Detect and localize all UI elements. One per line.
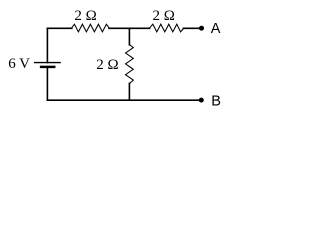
svg-text:2 Ω: 2 Ω: [96, 57, 118, 73]
svg-text:2 Ω: 2 Ω: [74, 8, 96, 24]
svg-text:2 Ω: 2 Ω: [153, 8, 175, 24]
svg-text:6 V: 6 V: [8, 56, 30, 72]
svg-text:B: B: [211, 94, 221, 110]
svg-text:A: A: [211, 21, 221, 37]
